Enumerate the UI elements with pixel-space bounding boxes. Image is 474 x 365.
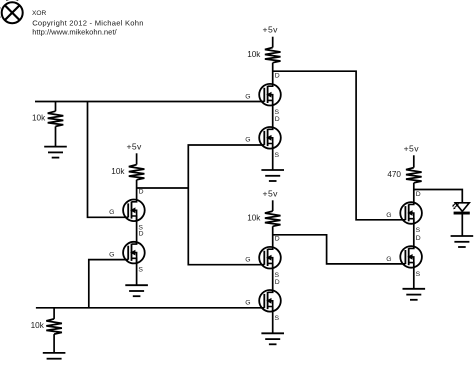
wire input B bus [36,307,264,309]
wire LED cathode to ground [461,214,463,236]
wire input A bus [35,101,264,103]
svg-text:S: S [275,272,280,279]
svg-text:G: G [386,212,391,219]
svg-text:http://www.mikekohn.net/: http://www.mikekohn.net/ [32,27,117,36]
svg-text:G: G [109,209,114,216]
title text block [32,10,144,36]
svg-text:+5v: +5v [126,141,142,151]
ground (LED) [451,236,474,247]
ground (R6) [43,353,66,359]
wire node NOT-A to Q4 and Q5 gates [188,145,264,265]
resistor R4 10k (bottom-middle) [247,200,280,247]
svg-text:S: S [416,227,421,234]
transistor Q1 (n-mosfet, gate A) [109,188,145,231]
wire Q3 source to Q4 drain [272,100,274,129]
svg-text:10k: 10k [32,114,46,123]
logo circle-X lamp mark [0,0,23,23]
ground (Q2) [125,285,148,296]
svg-text:470: 470 [387,170,401,179]
svg-text:S: S [275,315,280,322]
ground (Q6) [261,333,284,344]
power +5v (mid-left) [126,141,142,151]
svg-text:S: S [275,109,280,116]
wire Q4 source to ground [272,144,274,171]
wire bottom-middle drain node to Q8 gate [273,235,406,264]
svg-text:10k: 10k [247,50,261,59]
wire Q5 source to Q6 drain [272,263,274,292]
svg-text:+5v: +5v [263,25,279,35]
ground (R1) [44,147,67,158]
svg-text:G: G [109,252,114,259]
transistor Q4 (n-mosfet, gate NOT-A) [245,116,281,159]
wire output node to LED anode [414,190,463,203]
wire input B to Q2 gate [89,260,128,308]
svg-text:G: G [245,257,250,264]
svg-text:+5v: +5v [404,143,420,153]
svg-text:D: D [275,236,280,243]
transistor Q3 (n-mosfet, gate A) [245,73,281,116]
ground (Q4) [261,170,284,181]
svg-text:10k: 10k [247,213,261,222]
svg-text:S: S [138,267,143,274]
svg-text:D: D [139,188,144,195]
transistor Q5 (n-mosfet, gate NOT-A) [245,236,281,279]
svg-text:G: G [245,300,250,307]
power +5v (bottom-middle) [263,188,279,198]
transistor Q8 (n-mosfet) [386,235,422,278]
ground (Q8) [403,289,426,300]
svg-text:D: D [416,235,421,242]
power +5v (top-middle) [263,25,279,35]
node NOT-A (drain) label D wire [137,187,189,189]
resistor R3 10k (top-middle) [247,37,280,84]
transistor Q6 (n-mosfet, gate B) [245,279,281,322]
svg-text:D: D [275,73,280,80]
wire top-middle drain node to Q7 gate [273,71,406,220]
resistor R6 10k (input B pulldown) [31,308,62,353]
resistor R5 470 (right) [387,155,421,202]
svg-text:S: S [416,271,421,278]
svg-text:Copyright 2012 - Michael Kohn: Copyright 2012 - Michael Kohn [32,19,144,28]
svg-text:D: D [139,231,144,238]
wire input A to Q1 gate [88,102,129,218]
transistor Q2 (n-mosfet, gate B) [109,231,145,274]
resistor R1 10k (input A pulldown) [32,102,63,147]
wire Q7 source to Q8 drain [413,219,415,249]
svg-text:D: D [275,116,280,123]
svg-text:S: S [275,152,280,159]
LED D1 [452,202,470,214]
transistor Q7 (n-mosfet) [386,191,422,234]
svg-text:D: D [416,191,421,198]
wire Q2 source to ground [136,258,138,285]
svg-text:10k: 10k [111,167,125,176]
svg-text:10k: 10k [31,321,45,330]
power +5v (right) [404,143,420,153]
svg-text:D: D [275,279,280,286]
svg-text:+5v: +5v [263,188,279,198]
svg-text:G: G [245,94,250,101]
svg-text:G: G [245,137,250,144]
wire Q6 source to ground [272,307,274,334]
svg-text:G: G [386,256,391,263]
wire Q1 source to Q2 drain [136,216,138,244]
resistor R2 10k (mid-left) [111,153,144,200]
svg-text:XOR: XOR [32,10,47,17]
wire Q8 source to ground [413,263,415,289]
